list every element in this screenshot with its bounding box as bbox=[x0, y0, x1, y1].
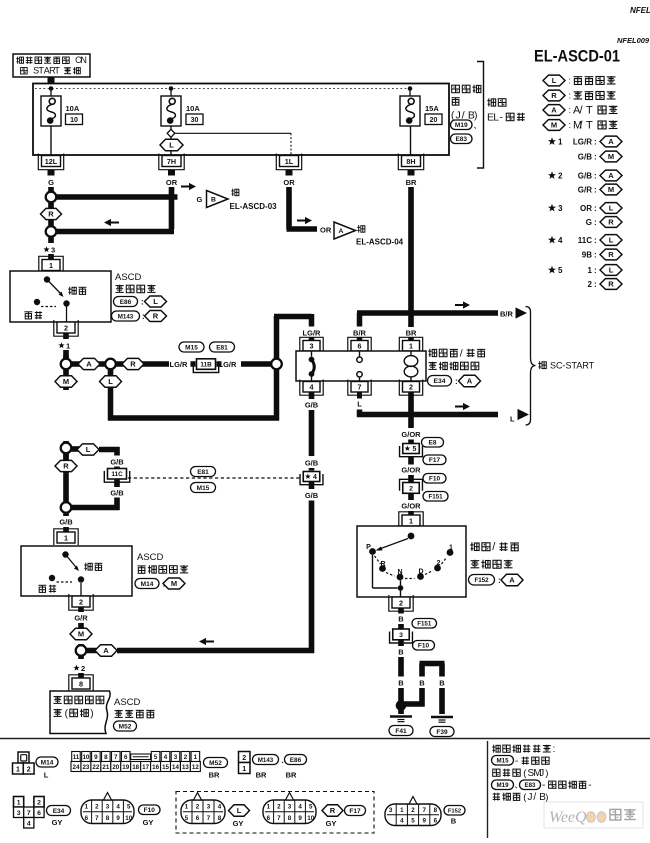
svg-text:-: - bbox=[542, 780, 545, 791]
svg-text:R: R bbox=[130, 360, 136, 369]
svg-text:3: 3 bbox=[106, 803, 110, 810]
svg-text:G: G bbox=[197, 195, 203, 204]
svg-text:F17: F17 bbox=[429, 457, 441, 464]
svg-text:1: 1 bbox=[49, 261, 53, 270]
svg-text:8: 8 bbox=[218, 815, 222, 822]
svg-text:1: 1 bbox=[409, 516, 413, 525]
svg-text:5: 5 bbox=[412, 446, 416, 453]
svg-text:1: 1 bbox=[267, 803, 271, 810]
svg-text:SC-START: SC-START bbox=[550, 361, 595, 371]
svg-text:R: R bbox=[153, 312, 159, 321]
svg-text:18: 18 bbox=[132, 764, 139, 771]
svg-text:E8: E8 bbox=[429, 440, 437, 447]
svg-text:EL-ASCD-01: EL-ASCD-01 bbox=[534, 47, 620, 66]
svg-text:L: L bbox=[357, 399, 362, 408]
svg-text:2: 2 bbox=[277, 803, 281, 810]
svg-text:2: 2 bbox=[64, 323, 68, 332]
svg-text:23: 23 bbox=[82, 764, 89, 771]
svg-text:4: 4 bbox=[310, 382, 314, 391]
svg-text:B: B bbox=[439, 679, 445, 688]
svg-text:F41: F41 bbox=[395, 728, 407, 735]
svg-text:A: A bbox=[103, 646, 109, 655]
svg-text:1: 1 bbox=[194, 754, 198, 761]
svg-text:R: R bbox=[330, 806, 336, 815]
svg-text:30: 30 bbox=[191, 117, 199, 124]
svg-text:ASCD: ASCD bbox=[115, 272, 142, 283]
svg-text:M19: M19 bbox=[455, 122, 468, 129]
svg-text:1: 1 bbox=[409, 341, 413, 350]
svg-text:5: 5 bbox=[127, 803, 131, 810]
svg-text:7: 7 bbox=[207, 815, 211, 822]
svg-text:G/R: G/R bbox=[578, 185, 592, 194]
svg-text:16: 16 bbox=[152, 764, 159, 771]
svg-text:15A: 15A bbox=[425, 104, 439, 113]
svg-text:7: 7 bbox=[27, 810, 31, 817]
svg-text:-: - bbox=[499, 111, 503, 123]
svg-text:11: 11 bbox=[73, 754, 80, 761]
svg-text:1: 1 bbox=[85, 803, 89, 810]
svg-text:E34: E34 bbox=[433, 378, 445, 385]
svg-text:M: M bbox=[608, 185, 614, 194]
svg-text:8: 8 bbox=[288, 815, 292, 822]
svg-text:6: 6 bbox=[434, 818, 438, 825]
svg-text:1: 1 bbox=[17, 800, 21, 807]
svg-text:22: 22 bbox=[92, 764, 99, 771]
svg-text:9: 9 bbox=[298, 815, 302, 822]
svg-text:8H: 8H bbox=[406, 157, 415, 166]
svg-text:E86: E86 bbox=[120, 299, 132, 306]
svg-text:L: L bbox=[609, 266, 614, 275]
svg-text:、: 、 bbox=[474, 125, 480, 131]
svg-text:R: R bbox=[608, 218, 614, 227]
svg-text::: : bbox=[455, 377, 458, 386]
svg-text:E81: E81 bbox=[216, 344, 228, 351]
svg-text:/: / bbox=[533, 792, 536, 803]
svg-text:B: B bbox=[398, 679, 404, 688]
svg-text:T: T bbox=[586, 119, 593, 131]
svg-text:B: B bbox=[211, 197, 216, 204]
svg-text::: : bbox=[594, 236, 597, 245]
svg-text::: : bbox=[594, 250, 597, 259]
svg-text:2: 2 bbox=[37, 800, 41, 807]
svg-text:5: 5 bbox=[154, 754, 158, 761]
svg-text:1: 1 bbox=[558, 137, 563, 146]
svg-text:M143: M143 bbox=[118, 313, 134, 320]
svg-text:A: A bbox=[608, 171, 614, 180]
svg-text:2: 2 bbox=[409, 382, 413, 391]
svg-text::: : bbox=[141, 298, 144, 307]
svg-text:GY: GY bbox=[233, 819, 244, 828]
svg-text:24: 24 bbox=[73, 764, 80, 771]
svg-text:7: 7 bbox=[277, 815, 281, 822]
svg-text::: : bbox=[569, 105, 572, 115]
svg-text:1: 1 bbox=[16, 767, 20, 774]
svg-text:6: 6 bbox=[267, 815, 271, 822]
svg-text:L: L bbox=[44, 771, 49, 780]
svg-text:LG/R: LG/R bbox=[170, 360, 188, 369]
svg-text:A: A bbox=[339, 228, 344, 235]
svg-text:R: R bbox=[48, 210, 54, 219]
svg-text:L: L bbox=[153, 297, 158, 306]
svg-text:1: 1 bbox=[242, 766, 246, 773]
svg-text::: : bbox=[594, 204, 597, 213]
svg-text:): ) bbox=[474, 110, 477, 121]
svg-text:G/OR: G/OR bbox=[401, 502, 421, 511]
svg-text:M52: M52 bbox=[119, 723, 132, 730]
svg-text:/: / bbox=[460, 347, 463, 359]
svg-text::: : bbox=[594, 280, 597, 289]
svg-text:4: 4 bbox=[400, 818, 404, 825]
svg-text:7: 7 bbox=[95, 815, 99, 822]
svg-text:7: 7 bbox=[422, 807, 426, 814]
svg-text:B: B bbox=[419, 679, 425, 688]
svg-text:3: 3 bbox=[207, 803, 211, 810]
svg-text:E34: E34 bbox=[53, 808, 65, 815]
svg-text:6: 6 bbox=[85, 815, 89, 822]
svg-text:13: 13 bbox=[182, 764, 189, 771]
svg-text:LG/R: LG/R bbox=[573, 137, 592, 146]
svg-text:WeeQ: WeeQ bbox=[549, 809, 587, 826]
svg-text:F10: F10 bbox=[418, 643, 430, 650]
svg-text:G/B: G/B bbox=[305, 401, 319, 410]
svg-text:10: 10 bbox=[307, 815, 314, 822]
svg-text:F151: F151 bbox=[428, 494, 443, 501]
svg-text:OR: OR bbox=[320, 226, 332, 235]
svg-text:11C: 11C bbox=[111, 471, 123, 478]
svg-text:4: 4 bbox=[298, 803, 302, 810]
svg-text:F10: F10 bbox=[144, 807, 156, 814]
svg-text:6: 6 bbox=[358, 341, 362, 350]
svg-text::: : bbox=[553, 744, 556, 755]
svg-text:R: R bbox=[608, 250, 614, 259]
svg-text:N: N bbox=[80, 55, 87, 65]
svg-text:7: 7 bbox=[114, 754, 118, 761]
svg-text:10: 10 bbox=[82, 754, 89, 761]
svg-text:N: N bbox=[397, 569, 402, 576]
svg-text:T: T bbox=[586, 104, 593, 116]
svg-text:M143: M143 bbox=[258, 757, 274, 764]
svg-text:EL-ASCD-04: EL-ASCD-04 bbox=[356, 238, 404, 247]
svg-text:14: 14 bbox=[172, 764, 179, 771]
svg-text:E81: E81 bbox=[197, 469, 209, 476]
svg-text::: : bbox=[594, 171, 597, 180]
svg-text:4: 4 bbox=[27, 821, 31, 828]
svg-text:F39: F39 bbox=[436, 729, 448, 736]
svg-text:2: 2 bbox=[411, 807, 415, 814]
svg-text::: : bbox=[594, 218, 597, 227]
svg-text:B/R: B/R bbox=[500, 310, 514, 319]
svg-text:3: 3 bbox=[17, 810, 21, 817]
svg-text:M19: M19 bbox=[496, 782, 509, 789]
svg-text:M14: M14 bbox=[41, 759, 54, 766]
svg-text:A: A bbox=[608, 137, 614, 146]
svg-text:2: 2 bbox=[558, 171, 563, 180]
svg-text:1: 1 bbox=[66, 342, 70, 351]
svg-text:M: M bbox=[608, 152, 614, 161]
svg-text:L: L bbox=[552, 76, 557, 85]
svg-text:E83: E83 bbox=[455, 136, 467, 143]
svg-text:3: 3 bbox=[389, 807, 393, 814]
svg-text:BR: BR bbox=[209, 771, 220, 780]
svg-text:M: M bbox=[171, 579, 177, 588]
svg-text:M15: M15 bbox=[496, 758, 509, 765]
svg-text:GY: GY bbox=[326, 819, 337, 828]
svg-text:3: 3 bbox=[51, 246, 55, 255]
svg-text:L: L bbox=[510, 415, 515, 424]
svg-text:BR: BR bbox=[406, 178, 417, 187]
svg-text:17: 17 bbox=[142, 764, 149, 771]
svg-text:9: 9 bbox=[422, 818, 426, 825]
svg-text:2: 2 bbox=[27, 767, 31, 774]
svg-text:8: 8 bbox=[434, 807, 438, 814]
svg-text:1: 1 bbox=[449, 545, 453, 552]
svg-text:2: 2 bbox=[588, 280, 593, 289]
svg-text:F152: F152 bbox=[474, 577, 489, 584]
svg-text:J: J bbox=[539, 768, 544, 779]
svg-text:GY: GY bbox=[52, 818, 63, 827]
svg-text:20: 20 bbox=[112, 764, 119, 771]
svg-text:M14: M14 bbox=[141, 581, 154, 588]
svg-text:11B: 11B bbox=[200, 361, 212, 368]
svg-text:5: 5 bbox=[411, 818, 415, 825]
svg-text:B: B bbox=[451, 817, 457, 826]
svg-text:9B: 9B bbox=[582, 250, 592, 259]
svg-text:G: G bbox=[586, 218, 592, 227]
svg-text:G/B: G/B bbox=[305, 491, 319, 500]
svg-text:M15: M15 bbox=[197, 485, 210, 492]
svg-text::: : bbox=[569, 91, 572, 101]
svg-text::: : bbox=[594, 137, 597, 146]
svg-text:5: 5 bbox=[309, 803, 313, 810]
svg-text:1: 1 bbox=[64, 533, 68, 542]
svg-text:10: 10 bbox=[125, 815, 132, 822]
svg-text:2: 2 bbox=[95, 803, 99, 810]
svg-text:R: R bbox=[551, 91, 557, 100]
svg-text:G: G bbox=[48, 178, 54, 187]
svg-text:L: L bbox=[493, 111, 499, 123]
svg-text:F152: F152 bbox=[448, 809, 461, 815]
svg-text:1: 1 bbox=[185, 803, 189, 810]
svg-text:4: 4 bbox=[313, 474, 317, 481]
svg-text:B: B bbox=[398, 615, 404, 624]
svg-text::: : bbox=[594, 152, 597, 161]
svg-text:L: L bbox=[237, 806, 242, 815]
svg-text:4: 4 bbox=[164, 754, 168, 761]
svg-text:3: 3 bbox=[288, 803, 292, 810]
svg-text:R: R bbox=[63, 462, 69, 471]
svg-text:L: L bbox=[609, 204, 614, 213]
svg-text:E86: E86 bbox=[290, 757, 302, 764]
svg-text:): ) bbox=[90, 708, 93, 719]
svg-text:6: 6 bbox=[124, 754, 128, 761]
svg-text:.: . bbox=[282, 756, 284, 765]
svg-text:3: 3 bbox=[399, 632, 403, 639]
svg-text:EL-ASCD-03: EL-ASCD-03 bbox=[230, 202, 278, 211]
svg-text:J: J bbox=[528, 792, 533, 803]
svg-text:8: 8 bbox=[104, 754, 108, 761]
svg-text:A: A bbox=[551, 106, 557, 115]
svg-text:G/OR: G/OR bbox=[401, 430, 421, 439]
svg-text:G/B: G/B bbox=[110, 489, 124, 498]
svg-text:3: 3 bbox=[174, 754, 178, 761]
svg-text:D: D bbox=[418, 569, 423, 576]
svg-text:L: L bbox=[86, 445, 91, 454]
svg-text:-: - bbox=[515, 756, 518, 767]
svg-text:M: M bbox=[63, 377, 69, 386]
svg-text:G/B: G/B bbox=[59, 518, 73, 527]
svg-text:LG/R: LG/R bbox=[303, 329, 321, 338]
svg-text:GY: GY bbox=[143, 818, 154, 827]
svg-text:6: 6 bbox=[196, 815, 200, 822]
svg-text:2: 2 bbox=[409, 485, 413, 492]
svg-text:8: 8 bbox=[79, 679, 83, 688]
svg-text:21: 21 bbox=[102, 764, 109, 771]
svg-text:1: 1 bbox=[588, 266, 593, 275]
svg-text:2: 2 bbox=[437, 560, 441, 567]
svg-text:G/B: G/B bbox=[578, 152, 592, 161]
svg-text:F17: F17 bbox=[349, 808, 361, 815]
svg-text:A: A bbox=[86, 360, 92, 369]
svg-text:2: 2 bbox=[242, 755, 246, 762]
svg-text::: : bbox=[594, 185, 597, 194]
svg-text:10A: 10A bbox=[186, 104, 200, 113]
svg-text:5: 5 bbox=[185, 815, 189, 822]
svg-text:G/B: G/B bbox=[578, 171, 592, 180]
svg-text::: : bbox=[498, 576, 501, 585]
svg-text:ASCD: ASCD bbox=[114, 697, 141, 708]
svg-text:2: 2 bbox=[81, 664, 85, 673]
svg-text:M52: M52 bbox=[209, 760, 222, 767]
svg-text:BR: BR bbox=[256, 771, 267, 780]
svg-text:7H: 7H bbox=[167, 157, 176, 166]
svg-text:BR: BR bbox=[406, 329, 417, 338]
svg-text:1: 1 bbox=[400, 807, 404, 814]
svg-text:7: 7 bbox=[358, 382, 362, 391]
svg-text:4: 4 bbox=[558, 236, 563, 245]
svg-text::: : bbox=[594, 266, 597, 275]
svg-text:A: A bbox=[467, 377, 473, 386]
svg-text:OR: OR bbox=[283, 178, 295, 187]
svg-text:NFEL: NFEL bbox=[630, 6, 650, 15]
svg-text:F151: F151 bbox=[417, 621, 432, 628]
svg-text:G/R: G/R bbox=[74, 614, 88, 623]
svg-text:9: 9 bbox=[94, 754, 98, 761]
svg-text:2: 2 bbox=[184, 754, 188, 761]
svg-text:A: A bbox=[509, 576, 515, 585]
svg-text:G/B: G/B bbox=[110, 458, 124, 467]
svg-text:R: R bbox=[608, 280, 614, 289]
svg-text:3: 3 bbox=[310, 341, 314, 350]
svg-text:12L: 12L bbox=[45, 157, 58, 166]
svg-text:M15: M15 bbox=[185, 344, 198, 351]
svg-text:5: 5 bbox=[558, 266, 563, 275]
svg-text:10: 10 bbox=[70, 117, 78, 124]
svg-text:11C: 11C bbox=[578, 236, 592, 245]
svg-text:R: R bbox=[380, 561, 385, 568]
svg-text:6: 6 bbox=[37, 810, 41, 817]
svg-text:G/B: G/B bbox=[305, 459, 319, 468]
svg-text:): ) bbox=[545, 768, 548, 779]
svg-text:BR: BR bbox=[286, 771, 297, 780]
svg-text:10A: 10A bbox=[66, 104, 80, 113]
svg-text:2: 2 bbox=[79, 597, 83, 606]
svg-text:G/OR: G/OR bbox=[401, 466, 421, 475]
svg-text:B/R: B/R bbox=[353, 329, 367, 338]
svg-text:ASCD: ASCD bbox=[137, 552, 164, 563]
svg-text:L: L bbox=[108, 377, 113, 386]
svg-text:P: P bbox=[366, 544, 371, 551]
svg-text:3: 3 bbox=[558, 204, 563, 213]
svg-text:L: L bbox=[609, 236, 614, 245]
svg-text:): ) bbox=[545, 792, 548, 803]
svg-text:E83: E83 bbox=[524, 782, 536, 789]
svg-text:B: B bbox=[398, 648, 404, 657]
svg-text:12: 12 bbox=[192, 764, 199, 771]
svg-text:F10: F10 bbox=[429, 476, 441, 483]
svg-text:1L: 1L bbox=[285, 157, 294, 166]
svg-text::: : bbox=[569, 76, 572, 86]
svg-text::: : bbox=[569, 120, 572, 130]
svg-text:19: 19 bbox=[122, 764, 129, 771]
svg-text:M: M bbox=[78, 630, 84, 639]
svg-text:2: 2 bbox=[196, 803, 200, 810]
svg-text:9: 9 bbox=[116, 815, 120, 822]
svg-text:LG/R: LG/R bbox=[219, 360, 237, 369]
svg-text:L: L bbox=[169, 141, 174, 150]
svg-text:20: 20 bbox=[430, 117, 438, 124]
svg-text:M: M bbox=[551, 121, 557, 130]
svg-text:OR: OR bbox=[166, 178, 178, 187]
svg-text:-: - bbox=[588, 780, 591, 791]
svg-text:NFEL009: NFEL009 bbox=[617, 36, 650, 45]
svg-text:4: 4 bbox=[116, 803, 120, 810]
svg-text:15: 15 bbox=[162, 764, 169, 771]
svg-text:OR: OR bbox=[580, 204, 592, 213]
svg-text:2: 2 bbox=[399, 598, 403, 607]
svg-text:8: 8 bbox=[106, 815, 110, 822]
svg-text:4: 4 bbox=[218, 803, 222, 810]
svg-text:T: T bbox=[54, 66, 60, 76]
